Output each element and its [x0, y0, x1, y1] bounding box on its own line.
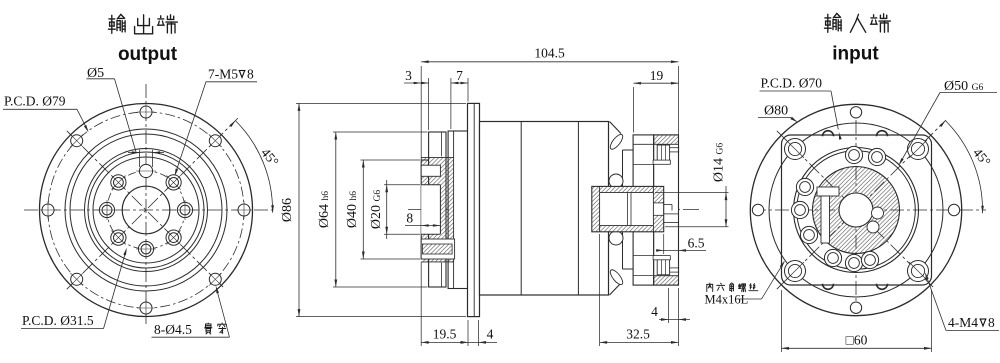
through hole D4.5 #3: [140, 106, 152, 118]
bolt hole section top: [421, 165, 440, 176]
bolt circle PCD31.5 dash-dot: [107, 171, 185, 249]
svg-text:8: 8: [406, 211, 413, 226]
dimension 7: [451, 68, 468, 129]
svg-text:19.5: 19.5: [433, 327, 457, 342]
label socket head screw M4x16L: [705, 261, 785, 307]
dimension 45 degrees left: [229, 121, 281, 213]
svg-text:4: 4: [651, 304, 658, 319]
title Chinese input: [825, 13, 891, 32]
boss circle D64 chamfer: [70, 134, 222, 286]
roller #7: [845, 254, 862, 271]
step circle r53: [93, 157, 199, 263]
output cylinder D64: [429, 132, 446, 287]
tapped hole M5 #7: [166, 230, 181, 245]
boss circle D70: [769, 123, 943, 297]
dowel hole D5 top: [139, 164, 152, 177]
through hole D4.5 #7: [140, 302, 152, 314]
outer circle D86: [40, 104, 253, 317]
dimension square 60: [782, 290, 932, 352]
corner hole M4 #3: [785, 261, 806, 282]
through hole D4.5 #5: [42, 204, 54, 216]
dimension 4 plate: [461, 320, 498, 346]
left view vertical centerline: [145, 84, 147, 324]
roller #3: [796, 178, 813, 195]
dimension D14 G6: [655, 143, 729, 227]
title Chinese output: [109, 14, 178, 33]
tapped hole M5 #3: [111, 175, 126, 190]
dimension D86 section: [280, 103, 466, 316]
svg-text:8: 8: [247, 67, 254, 82]
dimension 6.5: [656, 234, 706, 254]
through hole D4.5 #1: [238, 204, 250, 216]
cardinal hole #4: [850, 302, 861, 313]
dimension 8-D4.5 through: [152, 286, 230, 337]
dimension 45 degrees right: [939, 121, 993, 214]
svg-text:104.5: 104.5: [534, 45, 565, 60]
svg-text:□60: □60: [846, 333, 868, 348]
dimension D50 G6: [899, 79, 997, 165]
svg-text:32.5: 32.5: [626, 327, 650, 342]
hub hole 1: [872, 207, 884, 219]
bearing ball bottom: [609, 231, 623, 245]
socket screw M4 top: [653, 145, 679, 164]
dimension D20 G6: [369, 180, 420, 239]
tapped hole M5 #1: [177, 202, 192, 217]
housing right chamfer bottom: [608, 268, 625, 295]
output disc hatching: [421, 158, 453, 262]
dimension 19: [634, 68, 679, 133]
tapped hole M5 #2: [166, 175, 181, 190]
dimension D5: [87, 66, 165, 167]
hub bore D14: [839, 193, 873, 227]
output flange front view: [24, 84, 274, 324]
svg-text:3: 3: [405, 68, 412, 83]
dimension 7-M5 depth 8: [175, 67, 257, 177]
tapped hole M5 #6: [138, 241, 153, 256]
cardinal hole #2: [850, 107, 861, 118]
tapped hole M5 #4: [99, 202, 114, 217]
dimension PCD D70: [760, 76, 842, 140]
bolt hole section bottom: [421, 239, 454, 259]
dimension D80: [758, 104, 797, 123]
housing end face ring: [623, 150, 634, 269]
center bore D20 depth 8: [421, 185, 440, 234]
dimension D64 h6: [317, 132, 428, 287]
step circle r58: [88, 152, 204, 268]
output rim D66: [446, 131, 468, 289]
roller #5: [800, 226, 817, 243]
right view diagonal NE-SW: [777, 120, 946, 289]
svg-text:P.C.D. Ø79: P.C.D. Ø79: [4, 94, 66, 109]
dimension 4 right: [651, 288, 690, 323]
mounting square 60: [782, 135, 932, 285]
outer circle D85: [750, 104, 961, 315]
through hole D4.5 #6: [71, 273, 83, 285]
dimension 3: [404, 68, 429, 130]
input flange square section: [654, 135, 679, 285]
spigot D50 outer: [794, 148, 919, 273]
corner hole M4 #4: [908, 261, 929, 282]
section view centerline: [408, 209, 700, 211]
right view vertical centerline: [855, 120, 857, 310]
spigot D50 chamfer: [797, 151, 916, 270]
svg-text:Ø86: Ø86: [280, 198, 295, 222]
left view 45deg centerline NW-SE: [67, 131, 225, 289]
socket screw M4 bottom: [653, 256, 679, 275]
through hole D4.5 #2: [209, 135, 221, 147]
dimension 4-M4 depth 8: [925, 272, 999, 330]
svg-text:P.C.D. Ø31.5: P.C.D. Ø31.5: [22, 313, 94, 328]
svg-text:4: 4: [487, 327, 494, 342]
dimension PCD D31.5: [21, 248, 127, 329]
edge notch: [877, 131, 888, 137]
left view horizontal centerline: [24, 209, 274, 211]
input hub hatched: [813, 167, 900, 254]
roller #8: [861, 251, 878, 268]
svg-text:7: 7: [456, 68, 463, 83]
hub key slot horizontal: [817, 187, 839, 196]
svg-text:output: output: [118, 44, 178, 65]
hub hole 2: [867, 221, 879, 233]
svg-text:6.5: 6.5: [688, 235, 705, 250]
svg-text:P.C.D. Ø70: P.C.D. Ø70: [761, 76, 823, 91]
corner hole M4 #2: [908, 139, 929, 160]
output boss D40: [421, 160, 428, 259]
hub key slot vertical: [821, 196, 830, 243]
bearing ball top: [609, 174, 623, 188]
dimension 32.5: [600, 234, 679, 346]
center bore D20: [122, 186, 170, 234]
edge notch: [823, 131, 834, 137]
cardinal hole #1: [948, 204, 959, 215]
bolt circle PCD79 dash-dot: [48, 112, 244, 308]
flange center bore steps: [664, 205, 678, 223]
dimension PCD D79: [3, 94, 89, 133]
svg-text:7-M5: 7-M5: [208, 67, 238, 82]
dimension 8 depth: [405, 211, 440, 227]
dimension 104.5: [421, 45, 678, 160]
edge notch: [823, 284, 834, 290]
roller #1: [845, 146, 862, 163]
through hole D4.5 #4: [71, 135, 83, 147]
svg-text:19: 19: [650, 68, 664, 83]
corner hole M4 #1: [785, 139, 806, 160]
left view 45deg centerline NE-SW: [67, 118, 238, 289]
roller #6: [824, 249, 841, 266]
roller #2: [868, 148, 885, 165]
tapped hole M5 #5: [111, 230, 126, 245]
svg-text:8-Ø4.5: 8-Ø4.5: [154, 322, 192, 337]
roller #4: [791, 201, 808, 218]
input adapter ring: [633, 135, 654, 285]
svg-text:4-M4: 4-M4: [948, 315, 978, 330]
right view diagonal NW-SE: [777, 131, 935, 289]
cardinal hole #3: [752, 204, 763, 215]
input shaft sleeve: [592, 186, 664, 231]
right view horizontal centerline: [752, 209, 986, 211]
boss circle D64 outer: [65, 129, 227, 291]
edge notch: [877, 284, 888, 290]
housing right chamfer top: [608, 122, 625, 152]
svg-text:Ø80: Ø80: [764, 104, 788, 119]
input flange front view: [750, 104, 986, 315]
dimension D40 h6: [345, 160, 420, 259]
gearbox housing body: [480, 122, 609, 296]
step circle r61: [85, 149, 208, 272]
through hole D4.5 #8: [209, 273, 221, 285]
svg-text:8: 8: [988, 315, 995, 330]
dimension 19.5: [421, 262, 468, 346]
svg-text:input: input: [832, 44, 879, 65]
mounting flange plate D86: [468, 103, 480, 316]
